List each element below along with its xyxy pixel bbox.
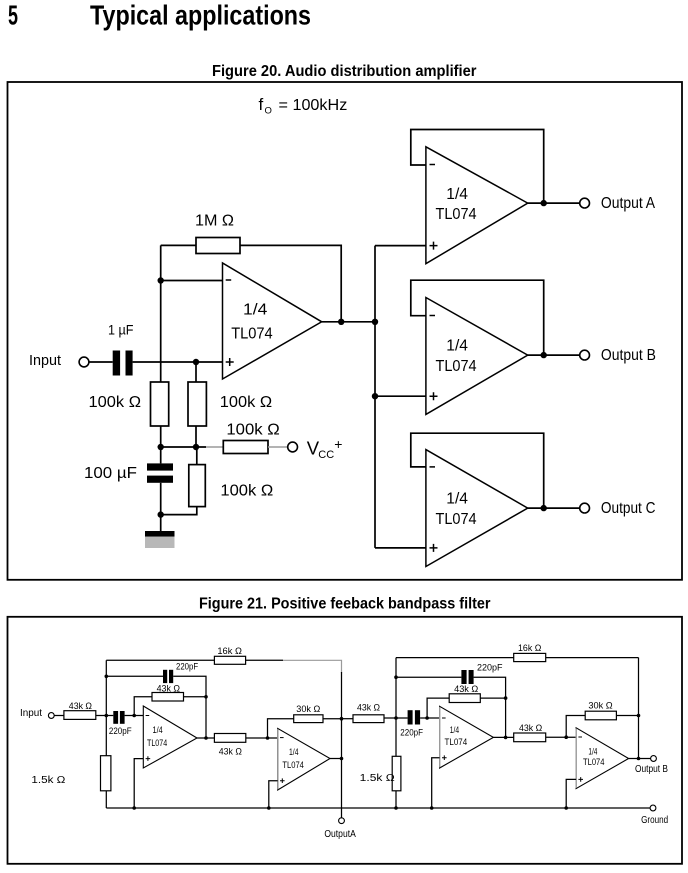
resistor R16 1.5k stage2 [392,756,401,791]
30k feedback left leg stage2 [566,716,585,738]
resistor R6 43k feedback [152,693,184,702]
svg-text:1 µF: 1 µF [108,322,134,338]
node dot output on bus [372,319,378,325]
vertical stage1 output [341,672,343,818]
terminal Ground [650,805,656,811]
wire C4 to down leg [173,676,206,738]
svg-text:43k Ω: 43k Ω [454,684,478,695]
node dot R6 right [204,695,208,699]
wire R5 to node A [96,715,114,717]
node dot R9 right [340,717,344,721]
plus sign U7 [442,755,447,760]
svg-text:5: 5 [8,0,18,31]
svg-text:30k Ω: 30k Ω [296,704,320,715]
resistor R13 16k stage2 [514,653,546,661]
vertical stage2 output [638,658,640,759]
wire R4 bottom to junction [161,507,197,515]
resistor R8 43k inter [214,734,245,743]
wire bias rail [161,446,206,448]
resistor R7 16k [214,656,245,664]
svg-text:16k Ω: 16k Ω [217,646,242,657]
capacitor C3 220pF series [113,711,118,724]
op-amp U6 (1/4 TL074) [278,728,330,790]
terminal Input [48,713,54,719]
wire R10 bottom [105,791,107,808]
plus sign U2 [430,242,438,250]
resistor R10 1.5k [101,756,111,791]
wire C6 to down leg stage2 [474,677,506,737]
capacitor C2 100uF plates [147,463,173,470]
svg-text:Figure 21. Positive feeback ba: Figure 21. Positive feeback bandpass fil… [199,595,491,612]
bus wire vertical distribution [374,246,376,548]
svg-text:Typical applications: Typical applications [90,0,311,31]
svg-text:TL074: TL074 [282,760,304,770]
capacitor C2 100uF top stub [160,447,162,463]
svg-text:TL074: TL074 [231,326,273,343]
op-amp U8 (1/4 TL074) [576,728,629,789]
plus sign U4 [430,544,438,552]
svg-text:220pF: 220pF [400,728,423,739]
svg-text:100k Ω: 100k Ω [89,394,142,411]
plus sign U6 [280,778,285,783]
minus sign U8 [578,736,582,738]
node dot U5 output [204,736,208,740]
resistor R5 43k input [64,711,96,720]
wire R3 to Vcc terminal gray [268,446,288,448]
label Vcc+ [307,436,343,461]
svg-text:f: f [259,95,264,114]
node dot U8 inverting [564,735,568,739]
wire R6 right [184,696,207,698]
top rail 16k stage2 right [546,657,639,659]
op-amp U5 (1/4 TL074) [143,706,197,768]
wire U7 + input down [432,758,440,808]
svg-text:1/4: 1/4 [153,725,163,735]
wire U2 feedback loop [411,130,544,204]
wire U1 output to bus [322,321,375,323]
node dot U3 feedback [541,352,547,358]
resistor R15 30k stage2 [585,711,616,720]
svg-text:100k Ω: 100k Ω [226,422,279,439]
node dot R15 right [637,714,641,718]
wire R15 right [616,715,638,717]
resistor R1 100k left bias [151,382,169,426]
node dot U7 output [504,736,508,740]
node dot A [105,714,109,718]
svg-text:1/4: 1/4 [450,725,459,735]
resistor R11 43k interstage [353,715,384,723]
terminal Output B [651,756,657,762]
node dot R12 right [504,696,508,700]
wire U6 + input down [269,781,278,808]
wire bus to U4 + input [375,547,426,549]
node dot B [394,716,398,720]
gray left edge U8 [575,728,577,788]
wire U7 output [493,736,513,738]
wire input to R5 [54,715,64,717]
bottom rail [106,807,650,809]
wire C1 to op-amp + input [133,361,223,363]
svg-text:43k Ω: 43k Ω [219,746,242,757]
svg-text:CC: CC [318,449,334,461]
svg-text:O: O [265,106,272,117]
terminal Output A [339,818,345,824]
wire 43k interstage left [342,718,354,720]
wire bus to U2 + input [375,245,426,247]
svg-text:1.5k Ω: 1.5k Ω [360,773,396,784]
minus sign U7 [442,717,446,719]
svg-text:43k Ω: 43k Ω [157,683,180,694]
resistor R3 100k to Vcc [223,441,268,454]
svg-text:220pF: 220pF [109,726,132,737]
wire feedback right segment [240,245,341,321]
terminal Input [79,357,89,367]
minus sign U6 [280,737,284,739]
node dot R2 rail [193,444,199,450]
resistor R12 43k feedback [449,694,480,703]
svg-text:100k Ω: 100k Ω [220,483,273,500]
wire bus to U3 + input [375,395,426,397]
top rail 16k right [246,659,283,661]
label f0 = 100kHz [259,95,348,117]
resistor R4 100k bottom [189,465,206,507]
node dot R16 rail [394,806,398,810]
wire R8 to U6 - input [246,737,278,739]
wire U8 + input down [566,779,576,808]
node dot U6 + rail [267,806,271,810]
wire U4 output [528,507,580,509]
wire R14 to U8 - input [546,736,576,738]
svg-text:1M Ω: 1M Ω [195,213,234,230]
svg-text:220pF: 220pF [176,662,198,673]
svg-text:1/4: 1/4 [243,302,268,319]
op-amp U3 (1/4 TL074) buffer B [426,298,528,415]
wire R2 top [195,362,197,382]
svg-text:TL074: TL074 [436,358,477,375]
node junction dot at R2 top [193,359,199,365]
node dot U7 inverting [425,716,429,720]
node dot ground junction [158,511,164,517]
op-amp U1 (1/4 TL074) [223,263,322,379]
svg-text:= 100kHz: = 100kHz [279,97,348,114]
rail2 wire to C4 [106,675,163,677]
vertical node B [395,658,397,757]
resistor R9 30k [294,715,323,723]
svg-text:1.5k Ω: 1.5k Ω [31,775,66,786]
wire U3 feedback loop [411,280,544,355]
svg-text:TL074: TL074 [583,757,605,767]
svg-text:1/4: 1/4 [446,491,468,508]
node dot U8 output [637,757,641,761]
wire feedback left segment [161,244,196,246]
wire R4 top stub [196,447,198,465]
wire input terminal to C1 [89,361,112,363]
capacitor C6 220pF feedback stage2 [461,670,466,684]
wire U2 output [528,202,580,204]
wire inverting input U1 [161,280,223,282]
wire U5 output [197,737,214,739]
top rail 16k stage2 left [396,657,514,659]
wire R16 bottom [395,791,397,808]
node dot U6 output [340,757,344,761]
svg-text:30k Ω: 30k Ω [588,701,612,712]
resistor R14 43k inter stage2 [514,733,546,742]
43k feedback left leg stage2 [427,698,449,718]
svg-text:100 µF: 100 µF [84,465,137,482]
wire R1 bottom [160,426,162,447]
wire bias rail gray part [206,446,223,448]
gray left edge U6 [277,729,279,789]
wire R12 right [480,697,505,699]
wire U4 feedback loop [411,433,544,508]
terminal Output C [580,503,590,513]
plus sign U1 [226,358,234,366]
svg-text:Output B: Output B [635,764,668,775]
wire U3 output [528,354,580,356]
wire C2 bottom [160,483,162,515]
svg-text:+: + [334,436,342,452]
svg-text:1/4: 1/4 [446,337,468,354]
op-amp U7 (1/4 TL074) [440,706,494,768]
ground [145,531,175,537]
svg-text:16k Ω: 16k Ω [518,643,541,654]
node dot inverting input [158,277,164,283]
capacitor C1 1uF [113,351,120,376]
node dot B rail2 [394,675,398,679]
node dot U6 inverting [266,736,270,740]
plus sign U8 [578,777,583,782]
minus sign U2 [430,164,436,166]
resistor 1M feedback [196,238,240,254]
node dot A rail2 [105,675,109,679]
svg-text:100k Ω: 100k Ω [220,394,272,411]
figure 21 frame [8,617,683,864]
node dot R1 rail [158,444,164,450]
svg-text:Input: Input [29,353,61,369]
svg-text:1/4: 1/4 [446,186,468,203]
minus sign U4 [430,466,436,468]
node dot U5 inverting [132,714,136,718]
node dot U4 feedback [541,505,547,511]
minus sign U5 [146,715,150,717]
plus sign U3 [430,392,438,400]
wire C5 to U7 - input [420,717,440,719]
30k feedback left leg [268,719,294,738]
wire to ground [160,515,162,531]
op-amp U4 (1/4 TL074) buffer C [426,450,528,567]
svg-text:Input: Input [20,708,42,719]
svg-text:Output B: Output B [601,347,656,364]
wire U6 output [330,758,342,760]
svg-text:43k Ω: 43k Ω [69,701,92,712]
terminal Output B [580,350,590,360]
svg-text:Ground: Ground [641,815,668,826]
wire R2 bottom [195,426,197,447]
gray left edge U7 [439,707,441,768]
svg-text:TL074: TL074 [436,511,477,528]
figure 20 frame [8,82,683,580]
wire R9 right [323,718,342,720]
node dot U8 + rail [564,806,568,810]
svg-text:Output A: Output A [601,195,656,212]
node dot U7 + rail [430,806,434,810]
top rail gray segment [283,660,342,673]
svg-text:1/4: 1/4 [289,747,299,757]
svg-text:TL074: TL074 [436,206,477,223]
rail2 stage2 wire to C6 [396,676,461,678]
wire C3 to U5 - input [125,715,144,717]
svg-text:220pF: 220pF [477,663,503,674]
svg-text:TL074: TL074 [445,737,468,747]
svg-text:43k Ω: 43k Ω [357,702,380,713]
op-amp U2 (1/4 TL074) buffer A [426,147,528,264]
wire vertical feedback/bias left [160,245,162,382]
minus sign U3 [430,315,436,317]
node dot U2 feedback [541,200,547,206]
svg-text:43k Ω: 43k Ω [519,723,542,734]
minus sign U1 [226,279,232,281]
terminal Vcc [288,442,298,452]
plus sign U5 [146,756,151,761]
svg-text:TL074: TL074 [147,738,167,748]
wire U8 output [629,758,651,760]
node dot U5 + rail [132,806,136,810]
svg-text:OutputA: OutputA [324,829,356,840]
wire U5 + input down [134,759,143,808]
top rail 16k left [106,659,214,661]
node dot bus amp B [372,393,378,399]
resistor R2 100k mid bias [188,382,206,426]
vertical node A [105,660,107,755]
terminal Output A [580,198,590,208]
svg-text:Figure 20. Audio distribution: Figure 20. Audio distribution amplifier [212,63,477,80]
capacitor C5 220pF series [408,710,413,724]
node dot feedback at output [338,319,344,325]
svg-text:1/4: 1/4 [588,746,597,756]
43k feedback left leg [134,697,152,716]
capacitor C4 220pF feedback [163,670,167,683]
wire R11 to node B [384,717,408,719]
svg-text:Output C: Output C [601,500,656,517]
